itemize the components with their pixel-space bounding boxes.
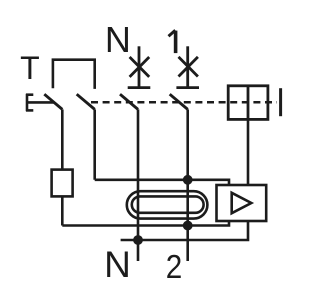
svg-text:N: N [105, 19, 131, 60]
svg-text:N: N [104, 244, 131, 285]
svg-text:T: T [20, 50, 40, 86]
svg-text:2: 2 [166, 248, 183, 285]
